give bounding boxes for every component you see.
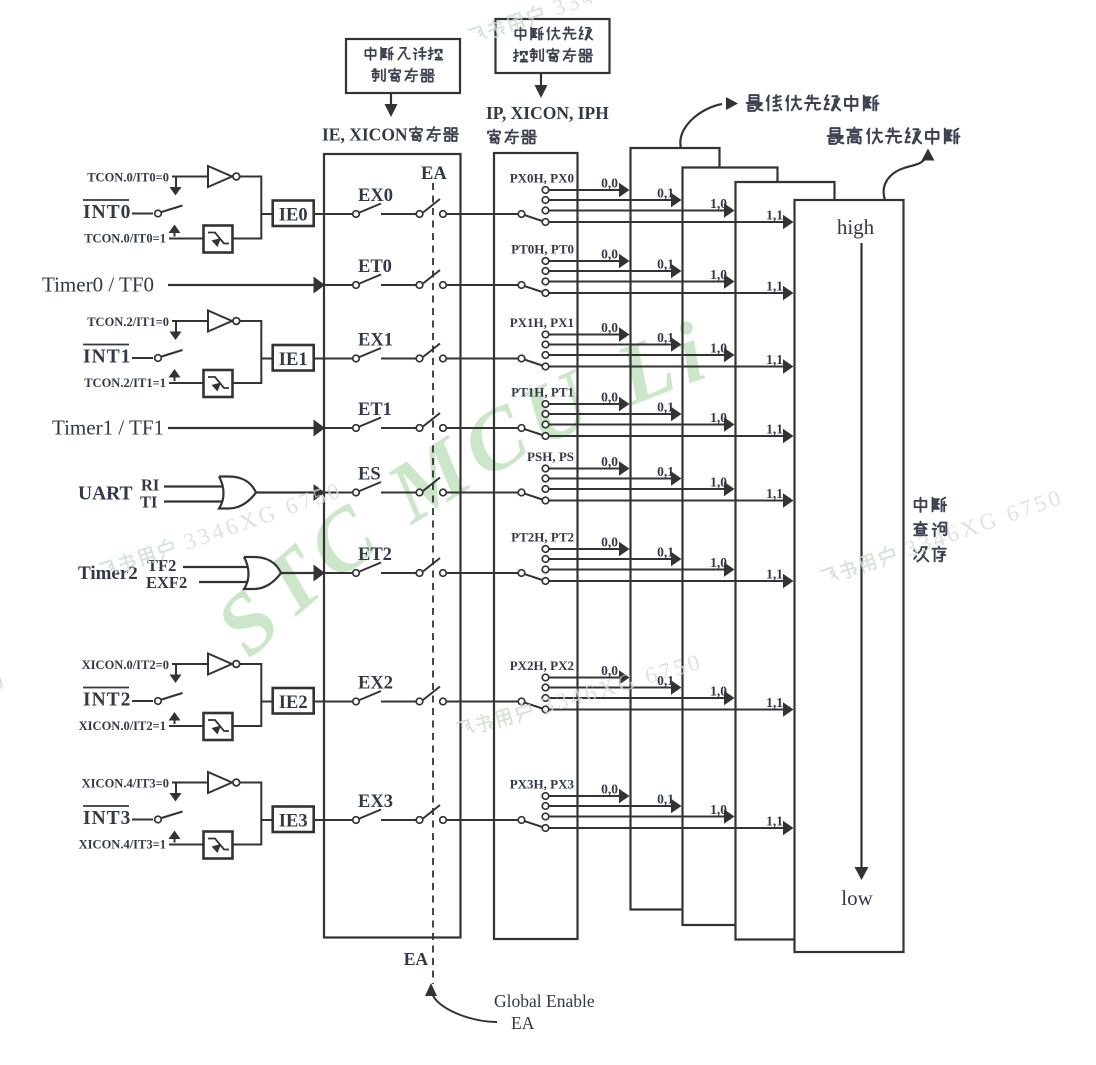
svg-text:0,0: 0,0 — [601, 782, 618, 797]
arrow: edge-trigger contact (up) INT0 — [174, 229, 176, 237]
wire: or-gate output to enable-register box — [281, 572, 316, 574]
watermark: feishu user stamp (center) — [455, 649, 705, 743]
or-gate UART — [219, 477, 256, 509]
svg-text:EX2: EX2 — [358, 674, 393, 694]
wire: ET0 priority output 0,1 — [549, 270, 673, 272]
wire: EX3 priority output 1,1 — [549, 827, 785, 829]
wire: row ET0 from EA switch into priority box — [446, 284, 518, 286]
wire: EX0 priority output 0,1 — [549, 199, 673, 201]
arrow: from enable-register label to IE box — [390, 93, 392, 105]
wire: ES priority output 0,1 — [549, 478, 673, 480]
wire: ET1 priority output 1,0 — [549, 424, 726, 426]
wire: row ET1 inside enable box — [324, 427, 353, 429]
flag box IE1 — [261, 358, 272, 360]
box: priority ladder level 0,0 — [631, 148, 720, 910]
svg-text:1,0: 1,0 — [710, 410, 727, 425]
wire: EX2 priority output 1,1 — [549, 709, 785, 711]
wire: edge detector output to IE3 junction — [233, 820, 262, 845]
svg-text:IE2: IE2 — [279, 693, 308, 713]
switch ES (interrupt enable) — [353, 489, 360, 496]
switch ET0 (interrupt enable) — [353, 282, 360, 289]
wire: EXF2 input to or-gate — [199, 581, 260, 583]
wire: row ET2 from EA switch into priority box — [446, 572, 518, 574]
switch: priority selector for PX3H, PX3 — [518, 817, 525, 824]
wire: ET0 priority output 1,0 — [549, 281, 726, 283]
wire: ET0 to EA switch — [381, 284, 416, 286]
watermark: feishu user stamp (mid-left) — [98, 477, 346, 583]
svg-text:IE3: IE3 — [279, 812, 308, 832]
wire: TCON.2/IT1=1 branch to edge detector — [169, 382, 203, 384]
wire: IE3 to enable-register box — [314, 819, 324, 821]
switch: priority selector for PX2H, PX2 — [518, 698, 525, 705]
svg-text:0,0: 0,0 — [601, 320, 618, 335]
svg-text:1,1: 1,1 — [766, 814, 783, 829]
wire: TCON.0/IT0=1 branch to edge detector — [169, 238, 203, 240]
svg-text:0,0: 0,0 — [601, 176, 618, 191]
arrow: level-trigger contact (down) INT2 — [175, 664, 177, 675]
arrow: Global Enable EA callout — [425, 983, 437, 996]
wire: EX2 priority output 1,0 — [549, 697, 726, 699]
wire: row EX2 inside enable box — [324, 701, 353, 703]
wire: ET1 priority output 1,1 — [549, 435, 785, 437]
svg-text:1,1: 1,1 — [766, 695, 783, 710]
svg-text:1,0: 1,0 — [710, 684, 727, 699]
wire: EX0 priority output 0,0 — [549, 189, 621, 191]
box: interrupt enable control register label — [346, 39, 460, 93]
wire: TCON.2/IT1=0 branch to inverter — [172, 320, 207, 322]
wire: ET2 to EA switch — [381, 572, 416, 574]
svg-text:EA: EA — [404, 949, 429, 969]
box: IE XICON interrupt-enable register — [324, 154, 461, 938]
svg-text:1,0: 1,0 — [710, 196, 727, 211]
svg-text:1,1: 1,1 — [766, 567, 783, 582]
inverter (not gate) INT1 — [208, 311, 232, 332]
svg-text:ET2: ET2 — [358, 545, 392, 565]
svg-text:0,1: 0,1 — [657, 400, 674, 415]
svg-text:EA: EA — [421, 164, 447, 184]
svg-text:1,0: 1,0 — [710, 802, 727, 817]
switch EX2 (interrupt enable) — [353, 698, 360, 705]
svg-text:EX3: EX3 — [358, 792, 393, 812]
svg-text:PT2H, PT2: PT2H, PT2 — [511, 530, 574, 545]
svg-text:PX0H, PX0: PX0H, PX0 — [510, 171, 574, 186]
watermark: feishu user stamp (mid-right) — [819, 484, 1067, 590]
svg-text:1,0: 1,0 — [710, 267, 727, 282]
svg-text:TCON.2/IT1=1: TCON.2/IT1=1 — [84, 376, 166, 390]
wire: EX3 priority output 1,0 — [549, 816, 726, 818]
flag box IE3 — [261, 819, 272, 821]
switch: INT2 trigger-type selector — [155, 698, 162, 705]
wire: ET2 priority output 0,0 — [549, 548, 621, 550]
svg-text:PX3H, PX3: PX3H, PX3 — [510, 777, 575, 792]
svg-text:PX1H, PX1: PX1H, PX1 — [510, 315, 574, 330]
inverter (not gate) INT0 — [208, 166, 232, 187]
wire: INT2 to selector switch — [132, 700, 153, 702]
svg-text:XICON.4/IT3=0: XICON.4/IT3=0 — [82, 777, 169, 791]
wire: row EX1 from EA switch into priority box — [446, 358, 518, 360]
wire: EX1 priority output 1,0 — [549, 354, 726, 356]
svg-text:low: low — [841, 886, 873, 910]
wire: TCON.0/IT0=0 branch to inverter — [172, 176, 207, 178]
switch EX3 (interrupt enable) — [353, 817, 360, 824]
wire: ET2 priority output 1,1 — [549, 580, 785, 582]
wire: inverter output to IE2 junction — [240, 664, 262, 702]
wire: XICON.4/IT3=1 branch to edge detector — [169, 844, 203, 846]
inverter (not gate) INT3 — [208, 772, 232, 793]
svg-text:0,0: 0,0 — [601, 247, 618, 262]
switch: priority selector for PX0H, PX0 — [518, 211, 525, 218]
wire: inverter output to IE3 junction — [240, 783, 262, 821]
wire: row EX0 from EA switch into priority box — [446, 213, 518, 215]
svg-text:0,1: 0,1 — [657, 464, 674, 479]
arrow: level-trigger contact (down) INT0 — [175, 177, 177, 188]
svg-text:INT2: INT2 — [83, 690, 131, 711]
svg-text:high: high — [837, 215, 875, 239]
switch: priority selector for PSH, PS — [518, 489, 525, 496]
wire: EX1 priority output 0,0 — [549, 334, 621, 336]
wire: EA global-enable dashed line — [432, 183, 434, 984]
wire: INT0 to selector switch — [132, 213, 153, 215]
svg-text:PX2H, PX2: PX2H, PX2 — [510, 658, 574, 673]
watermark: feishu user stamp (top) — [467, 0, 715, 49]
svg-text:INT3: INT3 — [83, 808, 131, 829]
wire: row ES from EA switch into priority box — [446, 492, 518, 494]
wire: EX0 priority output 1,1 — [549, 221, 785, 223]
svg-text:IP, XICON, IPH: IP, XICON, IPH — [486, 103, 609, 123]
wire: row EX3 inside enable box — [324, 819, 353, 821]
wire: RI input to or-gate — [164, 485, 235, 487]
wire: EX3 priority output 0,1 — [549, 805, 673, 807]
switch EA (row EX1) — [416, 355, 423, 362]
svg-text:ET0: ET0 — [358, 257, 392, 277]
svg-text:EX1: EX1 — [358, 331, 393, 351]
switch: INT3 trigger-type selector — [155, 816, 162, 823]
svg-text:ET1: ET1 — [358, 400, 392, 420]
wire: inverter output to IE0 junction — [240, 177, 262, 215]
svg-text:EXF2: EXF2 — [146, 573, 187, 592]
switch EX1 (interrupt enable) — [353, 355, 360, 362]
wire: edge detector output to IE1 junction — [233, 359, 262, 384]
svg-text:TCON.0/IT0=1: TCON.0/IT0=1 — [84, 232, 166, 246]
wire: row EX1 inside enable box — [324, 358, 353, 360]
svg-text:Timer1 / TF1: Timer1 / TF1 — [52, 416, 164, 440]
switch: priority selector for PT1H, PT1 — [518, 425, 525, 432]
arrow: edge-trigger contact (up) INT2 — [174, 717, 176, 725]
svg-text:PT1H, PT1: PT1H, PT1 — [511, 385, 574, 400]
or-gate Timer2 — [244, 557, 281, 589]
wire: EX2 priority output 0,0 — [549, 677, 621, 679]
svg-text:1,1: 1,1 — [766, 352, 783, 367]
svg-text:0,0: 0,0 — [601, 535, 618, 550]
wire: TI input to or-gate — [164, 500, 235, 502]
svg-text:0,1: 0,1 — [657, 257, 674, 272]
wire: Timer1 / TF1 to enable-register box — [168, 427, 316, 429]
switch: INT0 trigger-type selector — [155, 210, 162, 217]
svg-text:Global Enable: Global Enable — [494, 991, 595, 1011]
arrow: from priority-register label to IP box — [540, 73, 542, 86]
switch ET2 (interrupt enable) — [353, 570, 360, 577]
wire: IE2 to enable-register box — [314, 701, 324, 703]
wire: XICON.4/IT3=0 branch to inverter — [172, 782, 207, 784]
wire: row ET2 inside enable box — [324, 572, 353, 574]
wire: Timer0 / TF0 to enable-register box — [168, 284, 316, 286]
wire: EX2 to EA switch — [381, 701, 416, 703]
arrow: lowest priority interrupt callout — [680, 104, 722, 148]
switch EA (row ET0) — [416, 282, 423, 289]
wire: row EX3 from EA switch into priority box — [446, 819, 518, 821]
box: priority ladder level 1,1 / interrupt polling order — [795, 200, 904, 952]
arrow: edge-trigger contact (up) INT1 — [174, 374, 176, 382]
switch EA (row EX2) — [416, 698, 423, 705]
svg-text:TCON.2/IT1=0: TCON.2/IT1=0 — [87, 315, 169, 329]
wire: XICON.0/IT2=1 branch to edge detector — [169, 725, 203, 727]
wire: ET1 priority output 0,1 — [549, 413, 673, 415]
svg-text:XICON.0/IT2=0: XICON.0/IT2=0 — [82, 658, 169, 672]
svg-text:1,0: 1,0 — [710, 555, 727, 570]
wire: EX2 priority output 0,1 — [549, 687, 673, 689]
switch: priority selector for PT0H, PT0 — [518, 282, 525, 289]
svg-text:Timer0 / TF0: Timer0 / TF0 — [42, 273, 154, 297]
svg-text:1,1: 1,1 — [766, 279, 783, 294]
wire: INT3 to selector switch — [132, 819, 153, 821]
svg-text:IE1: IE1 — [279, 350, 308, 370]
edge detector (falling edge) INT2 — [204, 713, 233, 740]
svg-text:EA: EA — [511, 1013, 535, 1033]
wire: EX1 priority output 0,1 — [549, 344, 673, 346]
svg-text:EX0: EX0 — [358, 186, 393, 206]
label: interrupt polling order (chinese) — [915, 498, 947, 512]
svg-text:INT1: INT1 — [83, 347, 131, 368]
wire: EX3 priority output 0,0 — [549, 795, 621, 797]
wire: inverter output to IE1 junction — [240, 321, 262, 359]
switch EA (row ES) — [416, 489, 423, 496]
svg-text:1,0: 1,0 — [710, 341, 727, 356]
wire: row EX2 from EA switch into priority box — [446, 701, 518, 703]
wire: ES priority output 1,0 — [549, 488, 726, 490]
wire: ET1 priority output 0,0 — [549, 403, 621, 405]
svg-text:0,1: 0,1 — [657, 186, 674, 201]
arrow: highest priority interrupt callout — [884, 157, 926, 200]
svg-text:0,0: 0,0 — [601, 454, 618, 469]
wire: edge detector output to IE2 junction — [233, 702, 262, 727]
svg-text:TCON.0/IT0=0: TCON.0/IT0=0 — [87, 171, 169, 185]
switch EA (row EX0) — [416, 211, 423, 218]
arrow: edge-trigger contact (up) INT3 — [174, 835, 176, 843]
inverter (not gate) INT2 — [208, 654, 232, 675]
arrow: level-trigger contact (down) INT1 — [175, 321, 177, 332]
svg-text:TI: TI — [140, 493, 157, 512]
svg-text:0,1: 0,1 — [657, 792, 674, 807]
wire: ET2 priority output 1,0 — [549, 569, 726, 571]
box: interrupt priority control register label — [496, 19, 610, 73]
switch EX0 (interrupt enable) — [353, 211, 360, 218]
svg-text:ES: ES — [358, 465, 381, 485]
wire: row ET0 inside enable box — [324, 284, 353, 286]
wire: ET2 priority output 0,1 — [549, 558, 673, 560]
svg-text:XICON.4/IT3=1: XICON.4/IT3=1 — [79, 838, 166, 852]
svg-text:1,0: 1,0 — [710, 475, 727, 490]
wire: EX0 to EA switch — [381, 213, 416, 215]
svg-text:0,1: 0,1 — [657, 545, 674, 560]
switch EA (row ET1) — [416, 425, 423, 432]
switch: INT1 trigger-type selector — [155, 355, 162, 362]
wire: EX0 priority output 1,0 — [549, 210, 726, 212]
flag box IE0 — [261, 213, 272, 215]
wire: ET0 priority output 0,0 — [549, 260, 621, 262]
wire: ES priority output 0,0 — [549, 468, 621, 470]
wire: EX1 to EA switch — [381, 358, 416, 360]
wire: row ES inside enable box — [324, 492, 353, 494]
svg-text:IE0: IE0 — [279, 206, 308, 226]
wire: ES priority output 1,1 — [549, 500, 785, 502]
wire: IE0 to enable-register box — [314, 213, 324, 215]
svg-text:1,1: 1,1 — [766, 208, 783, 223]
switch EA (row EX3) — [416, 817, 423, 824]
edge detector (falling edge) INT1 — [204, 370, 233, 397]
box: priority ladder level 0,1 — [683, 168, 778, 926]
wire: row EX0 inside enable box — [324, 213, 353, 215]
svg-text:1,1: 1,1 — [766, 422, 783, 437]
arrow: level-trigger contact (down) INT3 — [175, 783, 177, 794]
svg-text:PT0H, PT0: PT0H, PT0 — [511, 242, 574, 257]
svg-text:IE, XICON: IE, XICON — [322, 125, 408, 145]
wire: EX1 priority output 1,1 — [549, 366, 785, 368]
switch: priority selector for PX1H, PX1 — [518, 355, 525, 362]
svg-text:0,0: 0,0 — [601, 390, 618, 405]
wire: or-gate output to enable-register box — [256, 491, 316, 493]
box: priority ladder level 1,0 — [736, 182, 835, 940]
svg-text:UART: UART — [78, 484, 133, 505]
wire: INT1 to selector switch — [132, 357, 153, 359]
edge detector (falling edge) INT3 — [204, 832, 233, 859]
switch EA (row ET2) — [416, 570, 423, 577]
svg-text:1,1: 1,1 — [766, 486, 783, 501]
wire: ES to EA switch — [381, 492, 416, 494]
flag box IE2 — [261, 701, 272, 703]
wire: EX3 to EA switch — [381, 819, 416, 821]
svg-text:PSH, PS: PSH, PS — [527, 449, 574, 464]
wire: ET0 priority output 1,1 — [549, 292, 785, 294]
box: IP XICON IPH priority register — [494, 153, 578, 939]
svg-text:XICON.0/IT2=1: XICON.0/IT2=1 — [79, 719, 166, 733]
wire: edge detector output to IE0 junction — [233, 214, 262, 239]
wire: XICON.0/IT2=0 branch to inverter — [172, 663, 207, 665]
wire: ET1 to EA switch — [381, 427, 416, 429]
wire: row ET1 from EA switch into priority box — [446, 427, 518, 429]
edge detector (falling edge) INT0 — [204, 226, 233, 253]
wire: IE1 to enable-register box — [314, 358, 324, 360]
svg-text:0,1: 0,1 — [657, 330, 674, 345]
switch ET1 (interrupt enable) — [353, 425, 360, 432]
switch: priority selector for PT2H, PT2 — [518, 570, 525, 577]
wire: TF2 input to or-gate — [183, 566, 260, 568]
svg-text:INT0: INT0 — [83, 202, 131, 223]
arrow: interrupt polling order high-to-low — [860, 243, 862, 869]
